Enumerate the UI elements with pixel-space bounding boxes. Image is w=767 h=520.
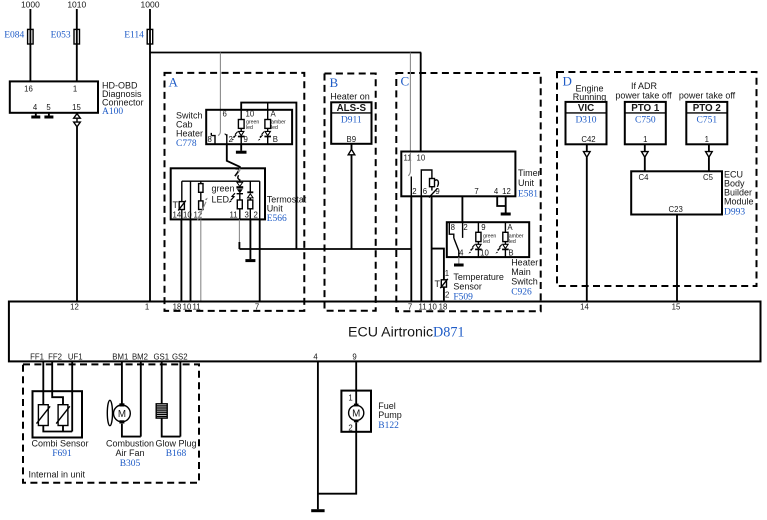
svg-text:T: T bbox=[435, 279, 441, 289]
wire F509 pin 2 to ECU pin 18 bbox=[443, 287, 445, 301]
wire timer pin 7 to C926 pin 2 bbox=[461, 196, 463, 222]
E566 switch at pin 7 bbox=[235, 168, 240, 180]
ground at A100 pin 5 bbox=[44, 116, 53, 119]
svg-text:E084: E084 bbox=[4, 31, 24, 41]
svg-text:led: led bbox=[246, 125, 253, 131]
E566 resistor (led chain) bbox=[237, 200, 242, 219]
svg-text:E114: E114 bbox=[124, 31, 144, 41]
resistor (green led) C926 bbox=[476, 222, 481, 241]
section C dashed frame bbox=[396, 73, 540, 311]
timer internal coil circuit pin 6 bbox=[421, 170, 438, 198]
wire net 7 horizontal bbox=[239, 248, 411, 250]
svg-text:ALS-S: ALS-S bbox=[337, 103, 367, 114]
svg-text:VIC: VIC bbox=[578, 103, 594, 114]
timer unit E581 bbox=[401, 152, 540, 200]
wire C778 pin 2 to E566 pin 7 bbox=[227, 144, 240, 168]
svg-text:FF2: FF2 bbox=[48, 353, 62, 362]
C926 pin 2 stub bbox=[462, 222, 464, 238]
svg-text:4: 4 bbox=[459, 249, 464, 258]
svg-text:C: C bbox=[401, 73, 410, 88]
svg-text:1: 1 bbox=[643, 135, 647, 144]
svg-text:D911: D911 bbox=[341, 116, 362, 126]
svg-text:M: M bbox=[352, 408, 360, 419]
svg-text:D871: D871 bbox=[433, 325, 465, 341]
E566 pin 10 internal wire bbox=[190, 181, 192, 219]
fuse E114 bbox=[124, 29, 153, 44]
svg-text:C23: C23 bbox=[669, 205, 683, 214]
wire 1000 rail to C778 pin 6 bbox=[218, 53, 220, 136]
svg-text:Running: Running bbox=[573, 92, 607, 102]
svg-text:3: 3 bbox=[245, 211, 249, 220]
wire ECU pin 4 down bbox=[317, 361, 319, 509]
wire C778 pin 9 to ground bbox=[240, 144, 242, 151]
svg-text:4: 4 bbox=[313, 353, 318, 362]
wire branch to sensor F509 bbox=[432, 249, 444, 280]
svg-text:GS2: GS2 bbox=[172, 353, 188, 362]
wire ECU GS1 to glow plug bbox=[161, 361, 163, 403]
svg-text:C5: C5 bbox=[703, 173, 714, 182]
LED amber C926 bbox=[495, 242, 508, 258]
svg-text:7: 7 bbox=[474, 187, 478, 196]
svg-text:C750: C750 bbox=[635, 116, 656, 126]
svg-text:B168: B168 bbox=[166, 449, 187, 459]
svg-text:green: green bbox=[212, 184, 235, 194]
svg-text:Pump: Pump bbox=[378, 410, 402, 420]
fuel pump B122 bbox=[341, 391, 401, 433]
svg-text:11: 11 bbox=[192, 302, 200, 311]
svg-text:8: 8 bbox=[451, 223, 455, 232]
svg-text:9: 9 bbox=[481, 223, 485, 232]
svg-text:Internal in unit: Internal in unit bbox=[29, 470, 86, 480]
body builder module D993 bbox=[631, 170, 753, 218]
svg-text:power take off: power take off bbox=[679, 91, 736, 101]
svg-text:6: 6 bbox=[223, 110, 227, 119]
E566 pin 2 internal wire bbox=[259, 181, 261, 219]
svg-text:14: 14 bbox=[580, 302, 589, 311]
power take off switch C750 (PTO 1) bbox=[625, 102, 666, 144]
wire 1010 to fuse E053 bbox=[76, 9, 78, 81]
wire 1000 supply rail bbox=[150, 52, 421, 54]
C778 switch pole pin 2 bbox=[225, 134, 227, 144]
svg-text:12: 12 bbox=[502, 187, 511, 196]
svg-text:15: 15 bbox=[72, 103, 81, 112]
svg-text:E581: E581 bbox=[518, 190, 538, 200]
wire C926 pin 4 to ground bbox=[458, 257, 460, 264]
wire PTO2 to D993 C5 bbox=[708, 157, 710, 171]
svg-text:B305: B305 bbox=[120, 459, 141, 469]
svg-text:PTO 2: PTO 2 bbox=[693, 103, 722, 114]
svg-text:D: D bbox=[563, 73, 572, 88]
svg-text:C926: C926 bbox=[511, 288, 532, 298]
svg-text:Combi Sensor: Combi Sensor bbox=[31, 439, 88, 449]
wire 1000 rail to timer pin 11 bbox=[409, 53, 411, 153]
wire A100 pin 15 stub bbox=[76, 113, 78, 114]
thermostat unit E566 bbox=[171, 168, 307, 224]
wire E566 pin 11 to net 7 bbox=[238, 219, 240, 249]
power take off switch C751 (PTO 2) bbox=[686, 102, 727, 144]
wire ECU FF1 to combi sensor bbox=[42, 361, 44, 404]
wire E566 pin 10 to ECU pin 10 bbox=[190, 219, 192, 301]
svg-text:Sensor: Sensor bbox=[453, 282, 482, 292]
svg-text:8: 8 bbox=[208, 135, 212, 144]
combi sensor F691 bbox=[31, 391, 88, 459]
wire LED rail down to net 7 bbox=[295, 109, 297, 249]
wire B9 to net 7 bbox=[351, 155, 353, 249]
LED green E566 (double diode) bbox=[228, 179, 243, 202]
svg-text:BM2: BM2 bbox=[132, 353, 148, 362]
glow plug B168 bbox=[155, 404, 196, 459]
svg-text:2: 2 bbox=[445, 291, 449, 300]
svg-text:4: 4 bbox=[33, 103, 38, 112]
svg-text:A: A bbox=[271, 110, 277, 119]
wire A100 pin 5 to ground bbox=[48, 113, 50, 116]
svg-text:B122: B122 bbox=[378, 421, 399, 431]
svg-text:Timer: Timer bbox=[518, 168, 541, 178]
svg-text:Heater on: Heater on bbox=[330, 92, 370, 102]
svg-text:led: led bbox=[509, 239, 516, 245]
svg-text:D310: D310 bbox=[575, 116, 596, 126]
wire PTO1 to D993 C4 bbox=[644, 157, 646, 171]
E566 internal bus bbox=[182, 180, 260, 182]
internal unit dashed frame bbox=[23, 364, 199, 482]
C778 pin A stub from rail bbox=[267, 103, 269, 120]
arrow from PTO1 bbox=[642, 152, 649, 158]
wire ECU BM1 to fan motor bbox=[121, 361, 123, 404]
svg-text:11: 11 bbox=[230, 211, 238, 220]
svg-text:6: 6 bbox=[423, 187, 427, 196]
svg-text:E053: E053 bbox=[51, 31, 71, 41]
svg-text:led: led bbox=[271, 125, 278, 131]
svg-text:10: 10 bbox=[183, 302, 192, 311]
svg-text:Switch: Switch bbox=[511, 277, 538, 287]
svg-text:12: 12 bbox=[70, 302, 79, 311]
LED amber C778 bbox=[258, 128, 271, 144]
wire timer pin 6 to ECU pin 11 bbox=[420, 196, 422, 301]
ground at timer pins 4/12 bbox=[501, 213, 511, 216]
svg-text:1: 1 bbox=[348, 394, 352, 403]
svg-text:A: A bbox=[507, 223, 513, 232]
svg-text:C4: C4 bbox=[639, 173, 650, 182]
svg-text:Combustion: Combustion bbox=[106, 439, 154, 449]
svg-text:C751: C751 bbox=[697, 116, 718, 126]
svg-text:A100: A100 bbox=[102, 107, 123, 117]
svg-text:14: 14 bbox=[173, 211, 182, 220]
section B dashed frame bbox=[325, 74, 376, 311]
timer internal pin 2 wire bbox=[410, 177, 412, 197]
svg-text:Temperature: Temperature bbox=[453, 272, 504, 282]
svg-text:5: 5 bbox=[46, 103, 51, 112]
svg-text:16: 16 bbox=[24, 85, 33, 94]
resistor (amber led) C778 bbox=[265, 120, 271, 129]
svg-text:10: 10 bbox=[428, 302, 437, 311]
svg-text:Heater: Heater bbox=[176, 129, 203, 139]
wire E566 pin 12 to ECU pin 11 bbox=[200, 219, 202, 301]
wire timer pin 2 to ECU pin 7 bbox=[410, 196, 412, 301]
svg-text:10: 10 bbox=[417, 154, 426, 163]
ECU D871 (ECU Airtronic) bbox=[9, 302, 761, 362]
ground at C926 pin 4 bbox=[454, 264, 464, 267]
svg-text:If ADR: If ADR bbox=[631, 81, 658, 91]
svg-text:2: 2 bbox=[412, 187, 416, 196]
wire E566 pin 2 to ECU pin 7 bbox=[259, 219, 261, 301]
svg-text:1010: 1010 bbox=[67, 0, 86, 10]
E566 potentiometer bbox=[197, 198, 208, 221]
svg-text:1: 1 bbox=[445, 269, 449, 278]
arrow from C42 bbox=[584, 152, 591, 158]
heater main switch C926 bbox=[447, 222, 538, 297]
svg-text:B: B bbox=[330, 75, 339, 90]
svg-text:2: 2 bbox=[348, 424, 352, 433]
svg-text:7: 7 bbox=[408, 302, 412, 311]
svg-text:2: 2 bbox=[463, 223, 467, 232]
fuse E053 bbox=[51, 29, 80, 44]
svg-text:15: 15 bbox=[672, 302, 681, 311]
wire E566 pin 3 to ground bbox=[249, 219, 251, 259]
combustion air fan B305 bbox=[106, 400, 154, 469]
arrow into B9 bbox=[348, 149, 355, 155]
svg-text:1: 1 bbox=[705, 135, 709, 144]
wire D911 pin B9 stub bbox=[351, 144, 353, 150]
svg-text:M: M bbox=[118, 409, 126, 420]
svg-text:B: B bbox=[273, 135, 278, 144]
LED green C778 bbox=[231, 128, 244, 144]
wire C42 to ECU pin 14 bbox=[586, 157, 588, 301]
wire A100 pin 4 to ground bbox=[35, 113, 37, 116]
wire 1000 to fuse E114 bbox=[149, 9, 151, 302]
svg-text:Module: Module bbox=[724, 197, 754, 207]
svg-text:power take off: power take off bbox=[615, 91, 672, 101]
section D dashed frame bbox=[557, 72, 757, 286]
svg-text:11: 11 bbox=[418, 302, 426, 311]
svg-text:ECU Airtronic: ECU Airtronic bbox=[348, 325, 433, 341]
wire E566 pin 14 to ECU pin 18 bbox=[180, 219, 182, 301]
svg-text:A: A bbox=[169, 74, 179, 89]
wire ECU BM2 to fan motor bbox=[140, 361, 142, 436]
svg-text:1: 1 bbox=[145, 302, 149, 311]
wire ECU UF1 to combi sensor bbox=[71, 361, 73, 431]
svg-text:1: 1 bbox=[73, 85, 77, 94]
svg-text:Main: Main bbox=[511, 267, 531, 277]
svg-text:LED: LED bbox=[212, 195, 230, 205]
section A dashed frame bbox=[165, 73, 305, 311]
C926 switch pin 8 to pin 4 bbox=[449, 222, 459, 257]
svg-text:9: 9 bbox=[352, 353, 356, 362]
ground at E566 pin 3 bbox=[245, 259, 255, 262]
E566 temperature sensor T bbox=[173, 181, 186, 219]
svg-text:4: 4 bbox=[494, 187, 499, 196]
svg-text:Unit: Unit bbox=[518, 178, 535, 188]
svg-text:B: B bbox=[508, 249, 513, 258]
svg-text:B9: B9 bbox=[347, 135, 357, 144]
svg-text:led: led bbox=[483, 239, 490, 245]
svg-text:PTO 1: PTO 1 bbox=[631, 103, 660, 114]
resistor (green led) C778 bbox=[238, 110, 244, 129]
ground at pin 4 net bbox=[311, 509, 324, 512]
svg-text:Unit: Unit bbox=[267, 203, 284, 213]
bidirectional diagnosis arrows bbox=[74, 114, 81, 127]
connector A100 (HD-OBD Diagnosis Connector) bbox=[10, 81, 144, 117]
svg-text:C778: C778 bbox=[176, 139, 197, 149]
LED green C926 bbox=[468, 242, 481, 258]
svg-text:18: 18 bbox=[173, 302, 182, 311]
vehicle interface D310 (VIC) bbox=[566, 102, 607, 144]
svg-text:Air Fan: Air Fan bbox=[115, 448, 144, 458]
temperature sensor F509 bbox=[435, 269, 504, 303]
svg-text:T: T bbox=[173, 200, 179, 210]
C778 switch pole pin 8 bbox=[211, 133, 215, 144]
svg-text:UF1: UF1 bbox=[68, 353, 83, 362]
timer internal switch pin 11 bbox=[408, 152, 410, 176]
wire D993 C23 to ECU pin 15 bbox=[676, 215, 678, 302]
svg-text:2: 2 bbox=[254, 211, 258, 220]
svg-text:18: 18 bbox=[439, 302, 448, 311]
wire ECU pin 9 to fuel pump bbox=[355, 361, 357, 405]
svg-text:E566: E566 bbox=[267, 214, 287, 224]
svg-text:Glow Plug: Glow Plug bbox=[155, 439, 196, 449]
ground at C778 pin 9 bbox=[236, 151, 247, 154]
wire timer pins 4 and 12 to ground bbox=[497, 196, 506, 212]
wire ECU FF2 to combi sensor bbox=[52, 361, 63, 404]
resistor (amber led) C926 bbox=[503, 222, 508, 241]
wire fuel pump pin 2 to pin4 net bbox=[318, 422, 356, 493]
label Engine Running bbox=[573, 84, 607, 103]
fuse E084 bbox=[4, 29, 33, 44]
svg-text:7: 7 bbox=[255, 302, 259, 311]
svg-text:Heater: Heater bbox=[511, 258, 538, 268]
svg-text:GS1: GS1 bbox=[153, 353, 169, 362]
display unit D911 (ALS-S) bbox=[331, 102, 371, 144]
wire timer pin 9 to ECU pin 10 bbox=[431, 196, 433, 301]
svg-text:FF1: FF1 bbox=[30, 353, 44, 362]
wire PTO1 pin 1 stub bbox=[644, 144, 646, 151]
svg-text:1000: 1000 bbox=[141, 0, 160, 10]
wire 1000 rail to timer pin 10 bbox=[420, 53, 422, 153]
wire A100 pin 15 to ECU pin 12 bbox=[76, 127, 78, 302]
switch unit C778 (Switch Cab Heater) bbox=[176, 110, 292, 150]
svg-text:BM1: BM1 bbox=[112, 353, 128, 362]
svg-text:1000: 1000 bbox=[21, 0, 40, 10]
wire PTO2 pin 1 stub bbox=[708, 144, 710, 151]
svg-text:C42: C42 bbox=[581, 135, 595, 144]
C778 LED supply rail bbox=[241, 103, 296, 110]
wire 1000 to fuse E084 bbox=[29, 9, 31, 81]
E566 diode chain pin 3 bbox=[247, 181, 253, 219]
ground at A100 pin 4 bbox=[31, 116, 40, 119]
svg-text:10: 10 bbox=[246, 110, 255, 119]
svg-text:D993: D993 bbox=[724, 208, 745, 218]
svg-text:F691: F691 bbox=[52, 449, 72, 459]
wire VIC C42 stub bbox=[586, 144, 588, 151]
label If ADR power take off bbox=[615, 81, 672, 101]
arrow from PTO2 bbox=[706, 152, 713, 158]
wire ECU GS2 to glow plug bbox=[179, 361, 181, 436]
E566 resistor upper bbox=[199, 181, 203, 201]
